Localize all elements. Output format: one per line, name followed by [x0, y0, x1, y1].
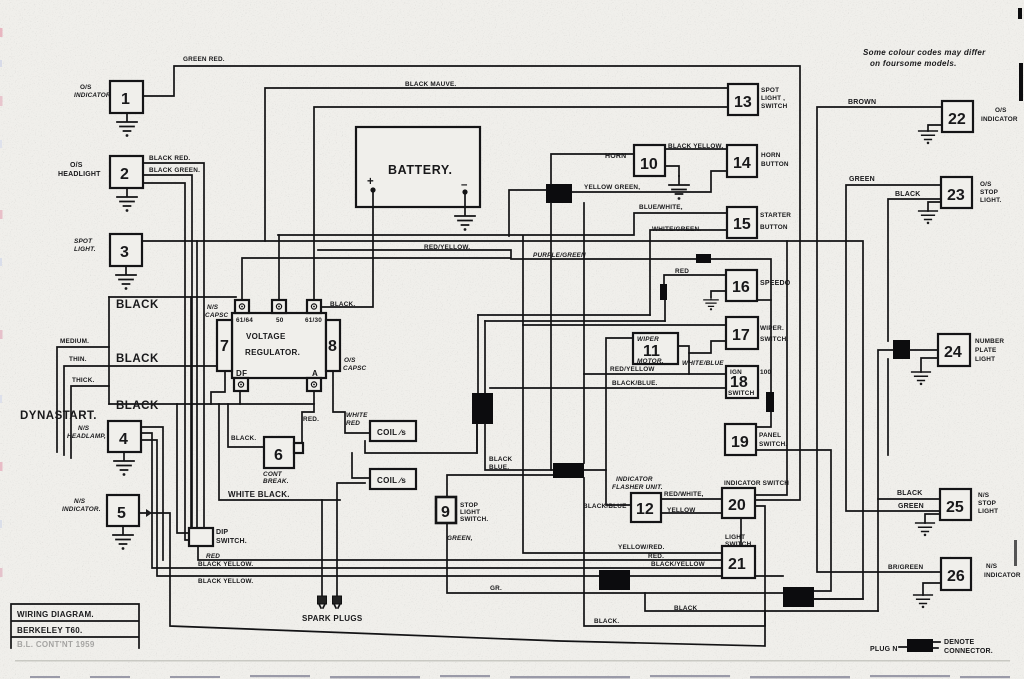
wire connector G to box 24 — [910, 349, 938, 351]
box 6 contact breaker — [263, 437, 303, 485]
terminal A — [307, 378, 321, 391]
wire terminal 61/30 up to box13 run y107 — [314, 107, 728, 300]
svg-text:DIP: DIP — [216, 529, 228, 536]
svg-text:GREEN,: GREEN, — [447, 535, 473, 542]
terminal 61/64 — [235, 300, 249, 313]
svg-text:SWITCH.: SWITCH. — [216, 538, 247, 545]
wire YELLOW GREEN right to horn button box14 — [572, 171, 727, 192]
wire connector B lower leads — [477, 424, 553, 470]
svg-text:SWITCH: SWITCH — [728, 390, 755, 397]
box 25 N/S stop light — [940, 489, 998, 520]
svg-text:STOP: STOP — [980, 189, 999, 196]
svg-text:16: 16 — [732, 279, 750, 296]
svg-text:50: 50 — [276, 317, 284, 324]
wire box19 bottom-right to connector F — [756, 450, 831, 591]
wire spark plug 1 drop — [321, 500, 323, 596]
svg-text:3: 3 — [120, 244, 129, 261]
wire box4 top to dip column — [141, 427, 163, 560]
wire box10 to ground — [665, 166, 679, 176]
svg-text:FLASHER UNIT.: FLASHER UNIT. — [612, 484, 663, 491]
svg-text:GREEN RED.: GREEN RED. — [183, 56, 225, 63]
svg-text:17: 17 — [732, 327, 750, 344]
fuse cartridge on panel feed — [766, 392, 774, 412]
svg-text:LIGHT: LIGHT — [460, 509, 480, 516]
svg-text:O/S: O/S — [344, 357, 356, 364]
spark plug 2 — [333, 596, 342, 608]
resistor cartridge — [660, 284, 667, 300]
regulator flange 7 — [217, 320, 232, 371]
wire box5 via arrow to bottom long line and box 20 — [139, 506, 765, 646]
wire GREEN to box23 — [846, 185, 941, 511]
svg-text:Some colour codes may differ: Some colour codes may differ — [863, 48, 986, 57]
svg-text:GREEN: GREEN — [849, 176, 875, 183]
svg-text:BLACK: BLACK — [674, 605, 698, 612]
box 10 horn — [605, 145, 665, 176]
svg-text:SPOT: SPOT — [74, 238, 93, 245]
wire box17 zigzag to rail — [689, 341, 726, 374]
wire box4 bottom to bundle L4 — [141, 440, 783, 576]
svg-text:THIN.: THIN. — [69, 356, 87, 363]
box 1 O/S indicator lamp — [74, 81, 143, 113]
svg-text:WIPER.: WIPER. — [760, 325, 784, 332]
wire box16 to small ground — [711, 291, 726, 297]
svg-text:BLACK.: BLACK. — [330, 301, 355, 308]
svg-text:RED/YELLOW: RED/YELLOW — [610, 366, 655, 373]
wire BLACK GREEN from box2 — [143, 175, 192, 528]
svg-text:RED: RED — [346, 420, 360, 427]
ground at box25 — [916, 523, 935, 536]
box 4 N/S headlamp — [67, 421, 141, 452]
legend PLUG N connector — [870, 639, 993, 655]
wire box20 top right to vertical x787 — [755, 241, 787, 495]
wire BLACK MAUVE y88 — [265, 88, 728, 241]
wire spot light long run to right column — [142, 241, 863, 599]
wire y315 cross rail — [478, 314, 650, 316]
svg-text:WHITE/GREEN.: WHITE/GREEN. — [652, 226, 701, 233]
svg-text:DYNASTART.: DYNASTART. — [20, 410, 97, 422]
svg-text:HEADLAMP,: HEADLAMP, — [67, 433, 106, 440]
wire battery minus to ground — [464, 192, 466, 207]
ground at box22 — [919, 131, 938, 144]
svg-text:BROWN: BROWN — [848, 99, 876, 106]
svg-text:10: 10 — [640, 156, 658, 173]
svg-text:SWITCH.: SWITCH. — [460, 516, 488, 523]
wire RED/YELLOW rail into box18 — [584, 373, 726, 375]
svg-text:WIPER: WIPER — [637, 336, 659, 343]
svg-text:WHITE/BLUE: WHITE/BLUE — [682, 360, 724, 367]
svg-text:INDICATOR: INDICATOR — [981, 116, 1018, 123]
ground at box24 — [912, 372, 931, 385]
wire vertical x191 from black rail to dip — [190, 297, 192, 528]
box 17 wiper switch — [726, 317, 788, 349]
box 14 horn button — [727, 145, 789, 177]
svg-text:BUTTON: BUTTON — [761, 161, 789, 168]
svg-text:DENOTE: DENOTE — [944, 639, 975, 646]
svg-text:O/S: O/S — [80, 84, 92, 91]
svg-text:SWITCH.: SWITCH. — [760, 336, 788, 343]
wire y321 cross rail — [485, 320, 665, 322]
wire BLACK lower step — [645, 593, 878, 611]
svg-text:BLACK/BLUE.: BLACK/BLUE. — [612, 380, 658, 387]
ground under battery — [455, 207, 475, 231]
box 13 spot light switch — [728, 84, 788, 115]
wire MEDIUM — [57, 347, 109, 452]
svg-text:2: 2 — [120, 166, 129, 183]
wire coil2 feed — [352, 453, 370, 478]
scan faint bottom rule — [15, 660, 1010, 662]
svg-text:INDICATOR: INDICATOR — [616, 476, 653, 483]
svg-text:LIGHT ,: LIGHT , — [761, 95, 785, 102]
wire BLACK into box25 — [878, 498, 940, 500]
svg-text:6: 6 — [274, 447, 283, 464]
wire box23 ground jog — [928, 202, 941, 211]
wire box4 mid to bundle L3 — [141, 433, 722, 568]
wire DF terminal to black rail — [239, 391, 241, 404]
svg-text:N/S: N/S — [978, 492, 990, 499]
svg-text:SPOT: SPOT — [761, 87, 779, 94]
small ground at box16 — [704, 297, 718, 310]
box 18 ignition switch — [726, 366, 772, 398]
wire box16 right edge stub to fuse line — [757, 299, 771, 301]
arrow head on box5 wire — [146, 509, 152, 517]
wire box24 ground jog — [921, 358, 938, 372]
svg-text:BLACK YELLOW.: BLACK YELLOW. — [198, 578, 253, 585]
box 24 number plate light — [938, 334, 1004, 366]
scan artifact right edge upper — [1019, 63, 1023, 101]
svg-text:SWITCH.: SWITCH. — [725, 541, 753, 548]
wire connector G left lead down — [878, 350, 893, 611]
svg-text:CONT: CONT — [263, 471, 283, 478]
wire dynastart left edge — [108, 297, 110, 404]
ground under box 5 — [113, 526, 133, 550]
wire GREEN RED : box1 to big loop down to box 20 — [143, 66, 800, 500]
wire box8 WHITE RED to coil1 — [333, 371, 370, 433]
svg-text:WHITE BLACK.: WHITE BLACK. — [228, 490, 290, 499]
svg-text:BLACK: BLACK — [895, 191, 921, 198]
scan artifact right edge top — [1018, 8, 1022, 19]
connector D small — [696, 254, 711, 263]
wire connector F right lower to spot run vertical — [814, 598, 863, 600]
svg-text:PURPLE/GREEN: PURPLE/GREEN — [533, 252, 586, 259]
wire BROWN and BR/GREEN trunk — [817, 107, 942, 572]
svg-text:RED.: RED. — [303, 416, 319, 423]
svg-text:A: A — [312, 369, 318, 378]
wire connector B upper leads — [478, 315, 485, 393]
wire connector A lower pin down to connector C — [550, 203, 552, 470]
ground at box23 — [919, 211, 938, 224]
title box — [11, 604, 139, 649]
svg-text:25: 25 — [946, 499, 964, 516]
svg-text:RED: RED — [675, 268, 689, 275]
connector F — [783, 587, 814, 607]
box 9 stop light switch — [436, 497, 488, 542]
wire box22 ground jog — [928, 125, 942, 131]
svg-text:STARTER: STARTER — [760, 212, 791, 219]
svg-text:N/S: N/S — [207, 304, 219, 311]
dip switch box — [189, 528, 213, 546]
svg-text:9: 9 — [441, 504, 450, 521]
wire BLACK YELLOW L4 tail under box21 handled ; connector E — [599, 570, 630, 590]
svg-text:22: 22 — [948, 111, 966, 128]
svg-text:YELLOW/RED.: YELLOW/RED. — [618, 544, 665, 551]
svg-text:4: 4 — [119, 431, 128, 448]
svg-text:N/S: N/S — [78, 425, 90, 432]
svg-text:BLACK: BLACK — [489, 456, 513, 463]
wire terminal 50 up to rail y235 — [278, 235, 280, 300]
svg-text:GR.: GR. — [490, 585, 502, 592]
svg-text:13: 13 — [734, 94, 752, 111]
wire battery plus BLACK down to 61/30 — [321, 190, 373, 307]
svg-text:12: 12 — [636, 501, 654, 518]
ground under box 4 — [114, 452, 134, 476]
box 12 indicator flasher unit — [583, 476, 663, 522]
svg-text:on foursome models.: on foursome models. — [870, 59, 957, 68]
svg-text:14: 14 — [733, 155, 751, 172]
svg-text:RED: RED — [206, 553, 220, 560]
svg-text:15: 15 — [733, 216, 751, 233]
wire BLACK top rail — [109, 296, 236, 298]
svg-text:INDICATOR: INDICATOR — [984, 572, 1021, 579]
svg-text:PANEL: PANEL — [759, 432, 781, 439]
svg-text:24: 24 — [944, 344, 962, 361]
wire horn feed from connector A top — [551, 154, 635, 184]
voltage regulator main box — [232, 313, 326, 378]
svg-text:O/S: O/S — [70, 162, 83, 169]
connector G — [893, 340, 910, 359]
coil 2 — [370, 469, 416, 489]
wire rail y235 long left part — [523, 236, 722, 553]
svg-text:CONNECTOR.: CONNECTOR. — [944, 648, 993, 655]
svg-text:100: 100 — [760, 369, 772, 376]
svg-text:BREAK.: BREAK. — [263, 478, 289, 485]
svg-text:BERKELEY T60.: BERKELEY T60. — [17, 626, 83, 635]
svg-text:RED.: RED. — [648, 553, 664, 560]
svg-text:B.L. CONT'NT 1959: B.L. CONT'NT 1959 — [17, 640, 95, 649]
svg-text:SWITCH: SWITCH — [761, 103, 788, 110]
wire box11 feed down to box12 — [606, 338, 633, 505]
scan noise left edge — [0, 28, 3, 577]
svg-text:NUMBER: NUMBER — [975, 338, 1004, 345]
svg-text:PLATE: PLATE — [975, 347, 997, 354]
svg-text:SWITCH.: SWITCH. — [759, 441, 787, 448]
svg-text:WIRING DIAGRAM.: WIRING DIAGRAM. — [17, 610, 94, 619]
box 21 light switch — [722, 534, 755, 578]
svg-text:REGULATOR.: REGULATOR. — [245, 348, 300, 357]
wire connector C right to box12 vertical — [584, 469, 606, 471]
svg-text:BLACK GREEN.: BLACK GREEN. — [149, 167, 200, 174]
wire connector A second pin to long vertical — [583, 203, 585, 463]
svg-text:7: 7 — [220, 338, 229, 355]
svg-text:HORN: HORN — [761, 152, 781, 159]
terminal DF — [234, 378, 248, 391]
svg-text:LIGHT: LIGHT — [975, 356, 995, 363]
box 11 wiper motor — [633, 333, 678, 365]
wire connector G bottom lead down — [887, 359, 889, 455]
svg-text:BLUE.: BLUE. — [489, 464, 509, 471]
wire WHITE BLACK rail — [219, 404, 340, 500]
svg-text:BLACK.: BLACK. — [594, 618, 619, 625]
svg-text:DF: DF — [236, 369, 247, 378]
wire RED to speedo with resistor tail — [664, 275, 726, 321]
wire box12 RED/WHITE to box20 — [661, 498, 722, 500]
svg-text:N/S: N/S — [74, 498, 86, 505]
wire rail y235 BLUE/WHITE feed — [278, 213, 727, 235]
wire spark plug 2 drop — [337, 483, 365, 596]
wire BLACK/BLUE rail into box18 — [490, 387, 726, 389]
ground at box26 — [914, 595, 933, 608]
svg-text:LIGHT.: LIGHT. — [980, 197, 1001, 204]
svg-text:RED/YELLOW.: RED/YELLOW. — [424, 244, 470, 251]
svg-text:HORN: HORN — [605, 153, 626, 160]
svg-text:61/30: 61/30 — [305, 317, 322, 324]
wire box10 right to box14 — [665, 148, 727, 150]
svg-text:WHITE: WHITE — [346, 412, 368, 419]
svg-text:BLACK MAUVE.: BLACK MAUVE. — [405, 81, 456, 88]
svg-text:YELLOW GREEN,: YELLOW GREEN, — [584, 184, 640, 191]
connector B — [472, 393, 493, 424]
svg-text:INDICATOR SWITCH: INDICATOR SWITCH — [724, 480, 789, 487]
note top right — [863, 48, 986, 68]
svg-text:BATTERY.: BATTERY. — [388, 163, 453, 177]
svg-text:CAPSC: CAPSC — [205, 312, 229, 319]
wire YELLOW GREEN left of connector A — [509, 190, 546, 236]
svg-text:21: 21 — [728, 556, 746, 573]
wire box12 YELLOW to box20 — [661, 512, 722, 514]
wire THIN / BLACK rail to regulator — [64, 366, 217, 455]
svg-text:MEDIUM.: MEDIUM. — [60, 338, 89, 345]
ground at horn — [669, 176, 689, 200]
regulator flange 8 — [326, 320, 340, 371]
svg-text:BLACK RED.: BLACK RED. — [149, 155, 190, 162]
spark plug 1 — [318, 596, 327, 608]
wire box2 third to dip switch — [143, 183, 189, 540]
svg-text:–: – — [461, 179, 468, 191]
svg-text:PLUG N: PLUG N — [870, 646, 898, 653]
wire box7 jog to black rail — [211, 371, 225, 404]
battery box — [356, 127, 480, 207]
svg-text:1: 1 — [121, 91, 130, 108]
wire y325 into box17 — [523, 324, 726, 326]
svg-text:THICK.: THICK. — [72, 377, 95, 384]
svg-text:MOTOR.: MOTOR. — [637, 358, 664, 365]
svg-text:O/S: O/S — [995, 107, 1007, 114]
svg-text:26: 26 — [947, 568, 965, 585]
svg-text:BLACK: BLACK — [116, 353, 159, 365]
svg-text:BLACK/BLUE: BLACK/BLUE — [583, 503, 627, 510]
box 5 N/S indicator — [62, 495, 139, 526]
svg-text:BLACK.: BLACK. — [231, 435, 256, 442]
wire WHITE/GREEN from box15 down — [650, 230, 727, 315]
svg-text:61/64: 61/64 — [236, 317, 253, 324]
wire A terminal RED to box6 notch — [302, 391, 314, 443]
svg-text:BLACK YELLOW,: BLACK YELLOW, — [668, 143, 723, 150]
ground under box 2 — [117, 188, 137, 212]
wire box9 bottom GR run to connector F — [447, 523, 783, 593]
terminal 61/30 — [307, 300, 321, 313]
wire box11 right stub — [678, 346, 689, 353]
box 3 spot light — [74, 234, 142, 266]
svg-text:VOLTAGE: VOLTAGE — [246, 332, 286, 341]
svg-text:O/S: O/S — [980, 181, 992, 188]
svg-text:INDICATOR.: INDICATOR. — [62, 506, 101, 513]
svg-text:COIL ∕s: COIL ∕s — [377, 428, 406, 437]
svg-text:YELLOW: YELLOW — [667, 507, 696, 514]
svg-text:N/S: N/S — [986, 563, 998, 570]
svg-text:RED/WHITE,: RED/WHITE, — [664, 491, 704, 498]
wire dip switch bottom RED to box 21 — [198, 546, 722, 560]
ground under box 3 — [116, 266, 136, 290]
wire box26 ground jog — [923, 583, 941, 595]
box 26 N/S indicator — [941, 558, 1021, 590]
wire BLACK into box6 — [228, 404, 264, 447]
svg-text:STOP: STOP — [978, 500, 997, 507]
wire branch vertical x197 from spot run to dip switch — [196, 241, 198, 528]
wire BLACK RED from box2 — [143, 163, 204, 528]
svg-text:CAPSC: CAPSC — [343, 365, 367, 372]
svg-text:23: 23 — [947, 187, 965, 204]
svg-text:HEADLIGHT: HEADLIGHT — [58, 171, 101, 178]
wire PURPLE/GREEN rail — [511, 259, 771, 427]
wire terminal 61/64 up to rail y258 and RED/YELLOW — [242, 250, 511, 300]
svg-text:18: 18 — [730, 374, 748, 391]
svg-text:+: + — [367, 176, 374, 188]
svg-text:BLACK: BLACK — [116, 400, 159, 412]
box 15 starter button — [727, 207, 791, 238]
wire coil1 bottom to connector B lead — [365, 424, 477, 453]
svg-text:BLUE/WHITE,: BLUE/WHITE, — [639, 204, 683, 211]
wire box21 bottom vertical — [740, 518, 742, 546]
svg-text:LIGHT.: LIGHT. — [74, 246, 96, 253]
wire box25 ground jog — [925, 514, 940, 523]
box 2 O/S headlight — [58, 156, 143, 188]
box 22 O/S indicator lamp — [942, 101, 1018, 132]
svg-text:BUTTON: BUTTON — [760, 224, 788, 231]
svg-text:BLACK: BLACK — [116, 299, 159, 311]
terminal 50 — [272, 300, 286, 313]
wire BLACK bottom rail — [109, 403, 314, 405]
svg-text:19: 19 — [731, 434, 749, 451]
svg-text:BLACK: BLACK — [897, 490, 923, 497]
scan artifact right edge mid — [1014, 540, 1017, 566]
wire BLACK to box23 — [888, 199, 941, 341]
svg-text:INDICATOR: INDICATOR — [74, 92, 111, 99]
scan noise bottom — [30, 675, 1010, 678]
svg-text:8: 8 — [328, 338, 337, 355]
svg-text:COIL ∕s: COIL ∕s — [377, 476, 406, 485]
coil 1 — [370, 421, 416, 441]
svg-text:STOP: STOP — [460, 502, 479, 509]
svg-text:BLACK YELLOW.: BLACK YELLOW. — [198, 561, 253, 568]
connector A yellow green — [546, 184, 572, 203]
wire box9 top lead — [447, 475, 553, 497]
svg-text:LIGHT: LIGHT — [725, 534, 745, 541]
wire long vertical below connector C to BLACK step — [584, 478, 765, 626]
svg-text:LIGHT: LIGHT — [978, 508, 998, 515]
wire x177 black rail to dip left — [177, 404, 189, 533]
box 16 speedo — [726, 270, 791, 301]
svg-text:BLACK/YELLOW: BLACK/YELLOW — [651, 561, 706, 568]
wire THICK — [71, 386, 109, 458]
svg-text:20: 20 — [728, 497, 746, 514]
svg-text:5: 5 — [117, 505, 126, 522]
svg-text:GREEN: GREEN — [898, 503, 924, 510]
connector C — [553, 463, 584, 478]
box 19 panel switch — [725, 424, 787, 455]
box 23 O/S stop light — [941, 177, 1001, 208]
box 20 indicator switch — [722, 480, 789, 518]
svg-text:BR/GREEN: BR/GREEN — [888, 564, 924, 571]
ground under box 1 — [117, 113, 137, 137]
